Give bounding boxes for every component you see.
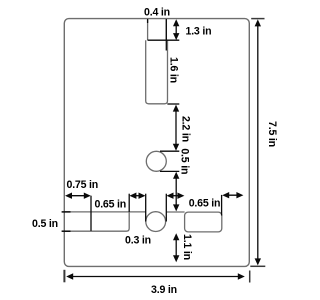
svg-text:0.5 in: 0.5 in: [179, 148, 191, 174]
black tick top of slot left edge: [147, 19, 149, 23]
extension line x=129.2: [128, 194, 130, 212]
svg-text:0.65 in: 0.65 in: [189, 198, 221, 210]
svg-text:1.3 in: 1.3 in: [186, 26, 212, 38]
svg-text:3.9 in: 3.9 in: [151, 284, 177, 296]
extension line at slot bottom (y=104): [167, 103, 179, 105]
svg-text:7.5 in: 7.5 in: [266, 121, 278, 147]
black segment on slot right edge: [165, 19, 167, 51]
band top line: [64, 211, 145, 213]
svg-text:0.5 in: 0.5 in: [32, 218, 58, 230]
dimension 0.75 in (horizontal): [65, 193, 91, 199]
dimension 0.3 in (horizontal): [129, 193, 145, 199]
circular hole (0.5 in dia) middle: [146, 151, 166, 171]
extension line top-right (7.5 dim): [251, 18, 264, 20]
dimension 2.2 in (vertical): [173, 105, 179, 151]
extension line x=166.3: [165, 194, 167, 222]
top slot lower section (1.6 in deep): [146, 40, 168, 104]
left slot bottom and right end: [64, 212, 129, 231]
circular hole bottom: [146, 212, 166, 232]
dimension gap circle-to-slot (horizontal, unlabeled): [167, 193, 185, 199]
extension line bottom-right (3.9 dim): [249, 271, 251, 283]
band top line right part: [166, 211, 184, 213]
dimension 3.9 in (horizontal bottom): [66, 273, 245, 279]
svg-text:1.1 in: 1.1 in: [181, 234, 193, 260]
svg-text:2.2 in: 2.2 in: [180, 116, 192, 142]
svg-text:0.65 in: 0.65 in: [95, 199, 127, 211]
extension line x=91: [90, 196, 92, 231]
dimension gap circle-to-band (vertical, unlabeled): [173, 172, 179, 212]
top slot upper section (0.4 in wide): [148, 19, 167, 40]
right slot (0.65 in) rounded rect: [185, 212, 222, 232]
svg-text:0.4 in: 0.4 in: [144, 7, 170, 19]
dimension 1.3 in (vertical): [173, 19, 179, 40]
extension line bottom-right corner (7.5 dim): [250, 265, 265, 267]
extension line bottom-left (3.9 dim): [63, 270, 65, 283]
extension ticks at plate left edge (0.5 in label): [62, 211, 71, 213]
extension line x=221.6: [221, 195, 223, 216]
extension line circle top: [160, 150, 179, 152]
extension line at slot step (y=40.2): [148, 39, 180, 41]
extension line circle bottom: [160, 170, 179, 172]
extension line x=145.7: [145, 194, 147, 222]
dimension right gap (horizontal, unlabeled): [222, 192, 243, 198]
dimension 1.1 in (vertical): [173, 233, 179, 262]
svg-text:0.3 in: 0.3 in: [125, 234, 151, 246]
plate outline: [64, 19, 249, 267]
dimension 7.5 in (vertical right): [255, 19, 261, 265]
svg-text:0.75 in: 0.75 in: [67, 179, 99, 191]
svg-text:1.6 in: 1.6 in: [168, 57, 180, 83]
